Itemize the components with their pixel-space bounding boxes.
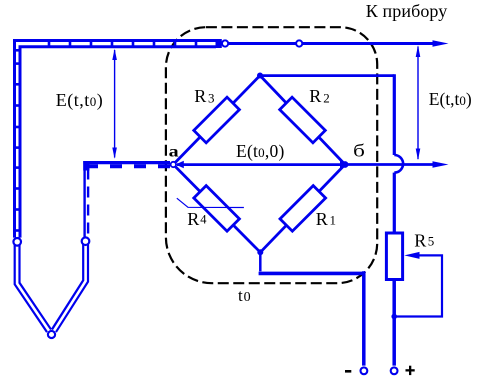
bridge arm a - bottom (carries R4) <box>173 165 260 253</box>
label: R2 <box>309 86 330 106</box>
svg-text:К прибору: К прибору <box>366 1 448 21</box>
svg-text:2: 2 <box>323 91 330 106</box>
label: E(t,t0) right <box>429 89 472 109</box>
svg-text:1: 1 <box>330 213 337 228</box>
wire: b to instrument (right) with end arrow <box>348 161 449 168</box>
label: R4 <box>187 209 207 229</box>
svg-text:а: а <box>169 142 179 160</box>
label: node b <box>353 140 365 161</box>
label: E(t,t0) left <box>56 90 104 111</box>
node: junction dot on R5 bottom lead <box>391 314 397 320</box>
wire: R5 bottom lead to plus terminal <box>392 281 396 366</box>
resistor R3 body <box>194 97 240 143</box>
thermocouple left electrode (double line) <box>17 245 49 331</box>
wire: bridge bottom node down then right to minus terminal <box>259 252 364 365</box>
node: bridge bottom junction dot <box>257 249 263 255</box>
svg-text:R: R <box>194 86 206 106</box>
label: minus sign <box>345 370 351 373</box>
wire: compensation lead B dashed companion line <box>83 161 170 237</box>
wire: top line to instrument with end arrow <box>228 40 449 47</box>
resistor R5 body (vertical) <box>386 233 402 280</box>
label: R3 <box>194 86 214 106</box>
wire: compensation lead B solid line (run to node a + drop) <box>83 161 170 237</box>
dimension arrow E(t,t0) right (double-headed) <box>416 45 421 160</box>
svg-text:5: 5 <box>428 233 435 248</box>
resistor R2 body <box>280 97 326 143</box>
dimension arrow E(t,t0) left (double-headed) <box>112 49 117 159</box>
node b (filled junction dot) <box>342 161 349 168</box>
svg-text:R: R <box>187 209 199 229</box>
svg-text:0: 0 <box>244 290 251 305</box>
bridge arm a - top (carries R3) <box>173 76 260 165</box>
thermocouple hot junction circle <box>48 331 55 338</box>
node: bridge top junction dot <box>257 73 263 79</box>
bridge arm top - b (carries R2) <box>260 76 345 165</box>
thermocouple head terminal circle (right) <box>82 237 90 245</box>
wire: R5 wiper arm loop <box>396 252 443 317</box>
label: R5 <box>414 231 434 251</box>
thermocouple head terminal circle (left) <box>13 238 21 246</box>
wire: compensation lead A inner rail <box>20 47 216 238</box>
dashed enclosure box t0 (reference-junction thermostat) <box>166 27 377 283</box>
label: E(t0,0) <box>236 141 285 161</box>
resistor R4 body <box>194 186 240 232</box>
svg-text:R: R <box>309 86 321 106</box>
resistor R1 body <box>280 186 326 232</box>
wire/arrow E(t0,0): line between node a and node b with both-end arrowheads <box>176 161 349 168</box>
svg-text:3: 3 <box>208 91 215 106</box>
svg-text:E(t,t0): E(t,t0) <box>56 90 104 111</box>
wire: bridge top node to supply rail (right then down, hop over b-wire) <box>260 74 403 233</box>
svg-text:E(t,t0): E(t,t0) <box>429 89 472 109</box>
adjustment strike line through R4 <box>177 198 244 207</box>
svg-text:R: R <box>316 209 328 229</box>
label: plus sign <box>406 366 415 375</box>
svg-text:R: R <box>414 231 426 251</box>
thermocouple right electrode (double line) <box>54 244 86 330</box>
svg-text:б: б <box>353 140 365 161</box>
node a (open circle) <box>171 162 176 167</box>
wire: compensation lead A outer rail (top run + left drop) <box>15 41 222 238</box>
svg-text:t: t <box>238 286 243 305</box>
bridge arm bottom - b (carries R1) <box>260 165 345 253</box>
junction circle on top wire (left) <box>222 40 228 46</box>
wire: compensation lead A ladder rungs <box>14 39 222 231</box>
label: К прибору <box>366 1 448 21</box>
label: R1 <box>316 209 336 229</box>
label: t0 <box>238 286 251 305</box>
label: node a <box>169 142 179 160</box>
junction circle on top wire (right) <box>296 40 302 46</box>
terminal circle minus <box>361 367 368 374</box>
terminal circle plus <box>391 367 398 374</box>
svg-text:4: 4 <box>200 213 207 227</box>
